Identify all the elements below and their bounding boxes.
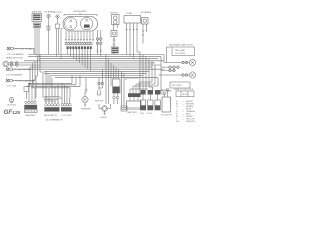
svg-text:C.D.I UNIT: C.D.I UNIT [62, 115, 73, 117]
svg-text:PLUG: PLUG [147, 113, 153, 115]
svg-text:REGULATOR: REGULATOR [44, 114, 57, 117]
handlebar connector block label [126, 13, 133, 15]
clutch lever switch label [110, 12, 118, 14]
brand name [8, 104, 17, 106]
svg-text:SIDE SW: SIDE SW [95, 101, 104, 103]
svg-text:TAIL LAMP: TAIL LAMP [175, 49, 186, 52]
CDI unit [61, 104, 72, 117]
position lamp [6, 79, 35, 83]
handlebar connector block [124, 16, 141, 59]
right bullet connectors [96, 30, 102, 57]
instrument cluster [63, 17, 98, 32]
svg-text:POSITION LAMP 3.4W: POSITION LAMP 3.4W [14, 80, 36, 83]
svg-text:RR BRAKE: RR BRAKE [141, 11, 152, 14]
stair junction box [24, 87, 29, 100]
tail bullets cluster [161, 66, 179, 72]
tail lamp label box [167, 47, 195, 63]
battery connector band [126, 78, 141, 101]
right front turn label2 [7, 53, 24, 56]
side stand switch [95, 69, 104, 102]
svg-text:RR TURN SIGNAL: RR TURN SIGNAL [155, 90, 173, 93]
svg-text:BATTERY: BATTERY [128, 111, 138, 114]
svg-text:MOTORS: MOTORS [8, 104, 17, 106]
engine stop switch label [54, 12, 62, 14]
speedometer [65, 18, 77, 30]
rear brake light switch [142, 18, 149, 44]
rear turn signal L [158, 72, 196, 78]
svg-text:12V 10W AMBER: 12V 10W AMBER [6, 73, 23, 76]
handlebar switch connector [67, 46, 92, 71]
headlight label [6, 56, 23, 59]
bottom small label [46, 119, 63, 122]
front brake switch label [45, 11, 56, 14]
mid connector w/ bullets [113, 37, 115, 48]
position lamp label2 [7, 85, 16, 87]
svg-text:12V 10W AMBER: 12V 10W AMBER [7, 53, 24, 56]
svg-text:MAIN SW: MAIN SW [32, 11, 41, 14]
engine stop switch [56, 15, 60, 57]
wiring harness bus [24, 55, 164, 78]
odometer LCD [84, 25, 90, 28]
title text [174, 89, 194, 91]
tachometer [80, 18, 92, 30]
left front turn label2 [6, 73, 23, 76]
speedometer marks [70, 20, 72, 27]
rear turn signal R [164, 59, 196, 65]
brand emblem [9, 97, 13, 103]
svg-text:MAGNETO: MAGNETO [26, 114, 37, 117]
ignition main switch [32, 14, 42, 28]
right harness drops [130, 52, 168, 97]
main switch label [32, 11, 41, 14]
ignition coil 3 [155, 90, 160, 110]
instrument cluster bracket label [64, 10, 97, 16]
title box [176, 91, 194, 97]
svg-text:E-STOP: E-STOP [54, 12, 62, 14]
ignition coil 2 [147, 90, 153, 115]
svg-text:AC GENERATOR: AC GENERATOR [46, 119, 63, 122]
right front turn signal [7, 47, 35, 55]
svg-text:GF125: GF125 [182, 94, 189, 96]
flasher relay [81, 78, 91, 111]
starter relay [113, 79, 121, 104]
rear turn label [155, 90, 173, 93]
tail lamp label [169, 43, 193, 46]
headlight [3, 61, 40, 67]
rear brake switch label [141, 11, 152, 14]
svg-text:HORN: HORN [101, 117, 108, 119]
front brake light switch [47, 14, 50, 54]
svg-text:CONN: CONN [126, 13, 133, 15]
cluster output wires [61, 29, 94, 59]
svg-text:FR TURN SIGNAL L: FR TURN SIGNAL L [14, 68, 34, 71]
starter motor [161, 89, 172, 117]
svg-text:TAIL/BRAKE LAMP 21/5W: TAIL/BRAKE LAMP 21/5W [169, 43, 193, 46]
mid vertical drops [106, 55, 124, 107]
left front turn signal [6, 68, 33, 72]
main switch wires [35, 28, 39, 61]
svg-text:12V 21/5W: 12V 21/5W [175, 53, 185, 55]
GF125 logo [4, 109, 21, 116]
cluster bullet connector row [65, 42, 93, 45]
svg-text:GF125: GF125 [4, 109, 21, 116]
battery [127, 101, 142, 114]
mid hatched connector [112, 47, 119, 55]
fuse holder [121, 106, 127, 111]
tail lamp spec box [170, 82, 190, 88]
svg-text:HEADLIGHT 35W: HEADLIGHT 35W [6, 56, 23, 59]
svg-text:METER ASSY: METER ASSY [74, 10, 88, 13]
svg-text:GRN/YEL: GRN/YEL [186, 121, 196, 123]
magneto block [24, 83, 37, 117]
svg-text:12V 3.4W: 12V 3.4W [7, 85, 16, 87]
svg-text:ST MOTOR: ST MOTOR [161, 114, 172, 116]
left harness stair wires [26, 55, 80, 104]
svg-text:12V 21/5W: 12V 21/5W [172, 85, 182, 87]
wire color legend [176, 100, 196, 123]
horn [99, 104, 111, 119]
svg-text:WIRE COLOR CODE: WIRE COLOR CODE [174, 89, 194, 91]
ignition coil 1 [140, 90, 146, 115]
svg-text:FR TURN SIGNAL R: FR TURN SIGNAL R [15, 48, 35, 51]
regulator rectifier [44, 104, 60, 117]
svg-text:IGN SW: IGN SW [110, 12, 118, 14]
svg-text:FLASHER: FLASHER [81, 108, 91, 111]
clutch lever switch [111, 15, 119, 37]
